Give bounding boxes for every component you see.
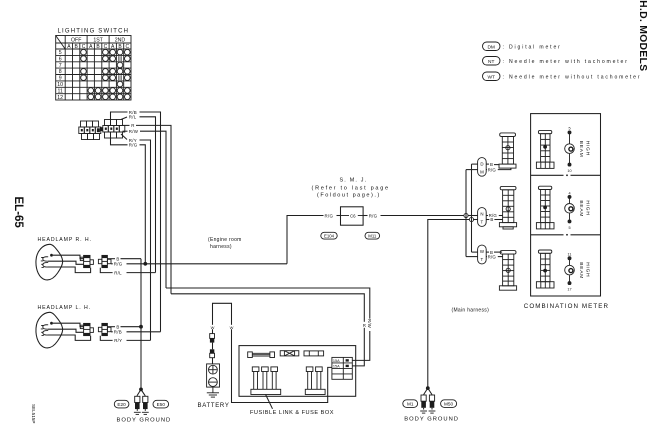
svg-text:BEAM: BEAM: [578, 262, 584, 279]
wire R/L from switch: [121, 117, 127, 120]
svg-text:10: 10: [57, 82, 63, 88]
ground pigtail E left branch: [137, 389, 141, 396]
svg-text:15A: 15A: [333, 365, 340, 369]
headlamp L.H. connector C1: [80, 323, 93, 335]
svg-text:4: 4: [568, 191, 570, 195]
svg-text:R/G: R/G: [488, 254, 497, 259]
table header labels: [71, 38, 125, 44]
svg-text:EL-65: EL-65: [12, 197, 24, 229]
meter tag DM capsule: [478, 158, 487, 177]
legend tag DM: [483, 42, 501, 51]
svg-text:B: B: [490, 162, 493, 167]
pin dot section 2: [543, 206, 547, 210]
wire R/W from switch: [123, 130, 128, 132]
svg-text:(Main harness): (Main harness): [452, 308, 490, 314]
wire R/G from switch: [111, 138, 128, 145]
wire R/B from switch: [111, 112, 128, 120]
fuse symbol F2: [304, 351, 324, 356]
junction dot R/G: [143, 262, 147, 266]
svg-text:: Digital meter: : Digital meter: [503, 44, 562, 50]
svg-text:BODY GROUND: BODY GROUND: [117, 418, 172, 424]
svg-text:: Needle meter with tachometer: : Needle meter with tachometer: [503, 59, 629, 65]
svg-text:R/W: R/W: [367, 319, 372, 328]
svg-text:C6: C6: [350, 213, 356, 218]
svg-text:COMBINATION METER: COMBINATION METER: [524, 303, 609, 310]
svg-text:E20: E20: [117, 402, 126, 407]
svg-text:LIGHTING SWITCH: LIGHTING SWITCH: [58, 29, 130, 35]
battery inline connector 1: [210, 334, 215, 339]
lighting switch connector B: [100, 120, 125, 139]
battery BAT: [207, 364, 220, 387]
high beam lamp section 2: [565, 195, 575, 223]
pin dot section 3: [543, 269, 547, 273]
svg-text:R/W: R/W: [129, 129, 139, 134]
combination meter box: [531, 114, 601, 296]
wire color label R/W (vertical): [368, 319, 373, 331]
svg-text:HIGH: HIGH: [584, 262, 590, 277]
svg-text:2ND: 2ND: [115, 38, 126, 44]
svg-text:11: 11: [58, 88, 63, 94]
svg-text:D: D: [480, 161, 483, 166]
ground below battery: [207, 387, 219, 397]
high beam lamp section 3: [565, 257, 575, 285]
svg-text:(Engine room: (Engine room: [208, 237, 242, 243]
svg-text:12: 12: [57, 95, 63, 101]
svg-text:(Refer to last page: (Refer to last page: [312, 185, 390, 191]
wire B to body ground (vertical): [140, 259, 142, 390]
wire R/W into fuse block: [166, 288, 370, 360]
svg-text:B: B: [490, 217, 493, 222]
fuse symbol F1: [248, 352, 275, 358]
headlamp R.H. filaments: [43, 257, 48, 267]
ground pigtail E50: [142, 396, 149, 414]
wire color mark (battery column): [211, 325, 215, 329]
svg-text:15A: 15A: [333, 359, 340, 363]
fusible link and fuse box outline: [239, 346, 356, 397]
wire R/G (NT): [486, 215, 488, 217]
wire color label R (vertical): [362, 322, 366, 328]
svg-text:R: R: [131, 123, 134, 128]
headlamp R.H. filament dot: [50, 254, 53, 257]
junction dot B (L.H.): [139, 325, 143, 329]
headlamp L.H. lamp body: [36, 312, 63, 348]
svg-text:9: 9: [59, 76, 62, 82]
connector strip WT (main harness): [499, 251, 516, 291]
svg-text:S. M. J.: S. M. J.: [340, 178, 368, 184]
svg-text:W: W: [211, 325, 215, 330]
svg-text:N: N: [480, 211, 483, 216]
svg-text:R/G: R/G: [129, 143, 138, 148]
svg-text:BEAM: BEAM: [578, 200, 584, 217]
node: M ground junction: [426, 386, 430, 390]
svg-text:E50: E50: [157, 402, 166, 407]
svg-text:5: 5: [59, 50, 62, 56]
S.M.J. connector box C6: [341, 207, 364, 225]
headlamp R.H. connector C2: [98, 255, 111, 267]
wire R/G (R.H. to S.M.J.): [111, 263, 113, 265]
svg-text:R/G: R/G: [325, 213, 334, 218]
wire R into fuse block: [171, 294, 364, 366]
connector strip NT (main harness): [499, 186, 516, 229]
svg-text:DM: DM: [487, 44, 494, 50]
svg-text:M1: M1: [407, 402, 414, 407]
svg-text:5: 5: [568, 127, 570, 131]
headlamp R.H. lead wires: [53, 255, 84, 259]
battery feed wire: [213, 303, 332, 402]
svg-text:FUSIBLE LINK & FUSE BOX: FUSIBLE LINK & FUSE BOX: [250, 410, 334, 416]
svg-text:M50: M50: [444, 402, 454, 407]
connector oval M50: [441, 400, 457, 408]
wire R/G rise to S.M.J.: [287, 216, 324, 264]
svg-text:HEADLAMP R. H.: HEADLAMP R. H.: [38, 237, 92, 243]
svg-text:SEL515P: SEL515P: [31, 404, 36, 423]
B bus vertical: [471, 164, 473, 252]
wire R/G label right of S.M.J.: [363, 215, 367, 217]
svg-text:10: 10: [567, 169, 571, 173]
fusible link group 2: [305, 367, 325, 395]
svg-text:M: M: [480, 169, 484, 174]
pointer line to fuse box label: [266, 395, 273, 409]
wire R/B (L.H.): [111, 331, 113, 333]
wire R/G junction to NT: [468, 215, 478, 217]
svg-text:R/L: R/L: [114, 270, 122, 275]
ground pigtail M branches: [424, 388, 428, 395]
wire B from meters to body ground: [428, 220, 470, 389]
connector strip meter section 1: [536, 130, 554, 168]
wire R/G to meter connectors: [381, 215, 464, 217]
headlamp R.H. under-loop wire: [100, 268, 112, 273]
svg-text:R/G: R/G: [369, 213, 378, 218]
ground pigtail M1: [420, 395, 427, 413]
node: B bus junction: [469, 217, 473, 221]
connector strip meter section 3: [536, 250, 554, 288]
svg-text:6: 6: [59, 57, 62, 63]
svg-text:harness): harness): [210, 244, 232, 250]
svg-text:E104: E104: [324, 234, 335, 239]
wire B (NT): [486, 219, 489, 221]
headlamp L.H. filament dot: [50, 322, 53, 325]
headlamp L.H. under-loop wire: [100, 336, 112, 341]
ground pigtail M50: [429, 395, 436, 413]
wire B (R.H.): [107, 258, 115, 260]
headlamp L.H. lead wires: [53, 323, 84, 327]
connector oval E50: [153, 400, 169, 408]
svg-text:HIGH: HIGH: [584, 141, 590, 156]
svg-text:R/L: R/L: [129, 115, 137, 120]
high beam lamp section 1: [565, 131, 575, 166]
svg-text:WT: WT: [487, 74, 495, 80]
wire color mark (fuse feed): [230, 325, 234, 329]
headlamp R.H. connector C1: [80, 255, 93, 267]
svg-text:1ST: 1ST: [93, 38, 103, 44]
legend tag WT: [483, 72, 501, 81]
connector strip meter section 2: [536, 186, 554, 229]
wire R/G (DM): [466, 169, 478, 171]
connector oval M11: [365, 232, 380, 239]
connector oval E104: [321, 232, 337, 239]
legend tag NT: [483, 57, 501, 66]
wire B (L.H.): [107, 326, 115, 328]
svg-text:T: T: [481, 220, 484, 225]
node: E ground junction: [139, 388, 143, 392]
wire R/G (WT): [466, 256, 478, 258]
wire R from switch: [123, 124, 130, 126]
connector oval E20: [114, 400, 129, 408]
meter tag NT capsule: [478, 208, 487, 227]
svg-text:(Foldout page).): (Foldout page).): [317, 193, 381, 199]
fusible link symbol (bowtie): [280, 351, 299, 356]
ground pigtail E20: [134, 396, 141, 414]
svg-text:R/Y: R/Y: [114, 338, 122, 343]
svg-text:OFF: OFF: [71, 38, 81, 44]
headlamp L.H. filaments: [43, 325, 48, 335]
svg-text:M11: M11: [368, 234, 377, 239]
meter tag WT capsule: [478, 245, 487, 264]
wire R/Y from switch: [121, 134, 127, 140]
svg-text:17: 17: [567, 288, 571, 292]
battery inline connector 2: [210, 349, 214, 353]
lighting switch table grid: [56, 36, 131, 101]
svg-text:T: T: [481, 257, 484, 262]
fusible link group 1: [251, 367, 281, 395]
svg-text:R: R: [363, 323, 366, 328]
svg-text:.H.D. MODELS: .H.D. MODELS: [637, 0, 648, 71]
svg-text:R/G: R/G: [114, 262, 123, 267]
svg-text:: Needle meter without tachome: : Needle meter without tachometer: [503, 74, 642, 80]
pin dot section 1: [543, 145, 547, 149]
table contact circles: [81, 49, 130, 99]
fuse block 15A: [332, 357, 352, 379]
headlamp R.H. lamp body: [36, 244, 63, 280]
svg-text:BEAM: BEAM: [578, 141, 584, 158]
lighting switch connector A: [79, 121, 101, 140]
svg-text:8: 8: [59, 69, 62, 75]
svg-text:W: W: [230, 325, 234, 330]
svg-text:BATTERY: BATTERY: [198, 403, 230, 409]
connector strip DM (main harness): [499, 133, 516, 168]
svg-text:7: 7: [59, 63, 62, 69]
svg-text:HEADLAMP L. H.: HEADLAMP L. H.: [38, 305, 91, 311]
svg-text:HIGH: HIGH: [584, 200, 590, 215]
svg-text:R/B: R/B: [114, 330, 122, 335]
headlamp L.H. connector C2: [98, 323, 111, 335]
wire B (DM): [472, 163, 478, 165]
svg-text:R/G: R/G: [488, 167, 497, 172]
svg-text:NT: NT: [488, 59, 494, 65]
svg-text:BODY GROUND: BODY GROUND: [404, 416, 459, 422]
svg-text:5: 5: [568, 226, 570, 230]
R/G bus vertical: [465, 170, 467, 257]
wire B (WT): [472, 251, 478, 253]
connector oval M1: [403, 400, 418, 408]
svg-text:11: 11: [568, 253, 572, 257]
node: R/G bus junction: [464, 213, 468, 217]
table row labels 5-12: [57, 50, 63, 101]
